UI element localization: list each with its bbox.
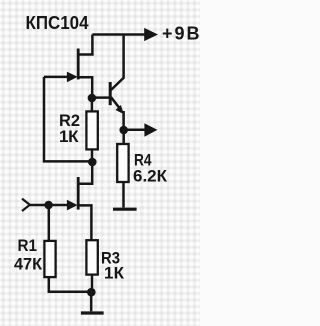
VT1.1 gate arrow [67, 72, 78, 83]
VT1.1 drain lead [78, 35, 92, 55]
transistor VT2 base bar [109, 82, 112, 105]
wire bootstrap loop (gate VT1.1 to node B) [44, 77, 92, 161]
wire node B to VT1.2 drain [78, 162, 92, 184]
wire top +9V rail [92, 33, 146, 36]
ground symbol (R4) [113, 208, 137, 211]
svg-text:+9В: +9В [162, 24, 200, 44]
svg-text:R1: R1 [18, 236, 38, 255]
wire output [124, 129, 146, 132]
svg-text:КПС104: КПС104 [26, 13, 89, 33]
resistor R1 body [44, 241, 55, 277]
wire base of VT2 [92, 96, 109, 99]
transistor VT1.1 upper JFET of КПС104: channel [77, 49, 80, 80]
VT2 collector [111, 35, 124, 91]
transistor VT1.2 lower JFET of КПС104: channel [77, 177, 80, 210]
VT2 emitter [111, 97, 121, 110]
svg-text:1К: 1К [104, 264, 125, 283]
VT1.2 gate arrow [67, 200, 78, 211]
ground node junction dot [87, 288, 96, 297]
node OUT junction dot [119, 126, 128, 135]
resistor R4 body [117, 144, 128, 182]
wire R2 bottom to node B [91, 149, 94, 162]
resistor R3 body [86, 240, 97, 274]
wire R4 top (emitter node to R4) [122, 130, 125, 144]
svg-text:47К: 47К [14, 255, 43, 274]
VT1.2 source lead [79, 205, 91, 240]
output terminal arrow [144, 123, 157, 137]
wire node IN to R1 [48, 205, 51, 241]
wire to ground [90, 292, 93, 311]
node B junction dot [88, 158, 97, 167]
wire node A to R2 [91, 98, 94, 112]
resistor R2 body [86, 111, 97, 149]
VT1.1 source lead [79, 77, 92, 98]
VT1.2 gate wire [30, 204, 69, 207]
power terminal arrow [144, 28, 158, 41]
svg-text:1К: 1К [59, 127, 79, 146]
wire R1 bottom to ground node [49, 277, 91, 292]
ground symbol (bottom) [81, 311, 104, 314]
VT1.1 gate wire [44, 76, 69, 79]
svg-text:6.2К: 6.2К [133, 167, 168, 186]
wire R4 bottom to ground [122, 182, 125, 208]
input terminal chevron [22, 199, 30, 211]
node A junction dot [88, 94, 97, 103]
node IN junction dot [44, 201, 53, 210]
VT2 emitter arrowhead [116, 105, 125, 114]
VT2 emitter wire down [122, 111, 125, 130]
wire R3 bottom to ground node [91, 275, 94, 293]
